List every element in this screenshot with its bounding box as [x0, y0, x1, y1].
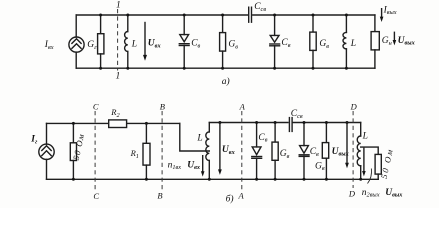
wire: right top rail right of Csv [293, 122, 361, 124]
node dot Gv2b top [325, 121, 328, 124]
node dot Cv1 bottom [183, 67, 186, 70]
svg-text:L: L [362, 131, 368, 141]
svg-text:Uвых: Uвых [398, 36, 415, 47]
svg-text:B: B [160, 101, 165, 111]
svg-text:Iг: Iг [30, 135, 38, 146]
svg-text:Gв: Gв [319, 39, 329, 50]
load conductance Gn [371, 15, 379, 68]
svg-text:а): а) [222, 76, 230, 87]
svg-text:Gв: Gв [280, 149, 290, 160]
svg-text:R1: R1 [130, 148, 139, 160]
node dot L input bottom [208, 178, 211, 181]
wire: right top rail left of Csv [209, 122, 288, 124]
svg-text:Uвх: Uвх [148, 39, 161, 50]
section line A-A [241, 111, 243, 191]
conductance Gv1 [220, 15, 226, 68]
node dot Gv1 bottom [221, 67, 224, 70]
svg-text:Cв: Cв [258, 133, 267, 144]
svg-text:Gн: Gн [382, 36, 392, 47]
svg-text:Uвых: Uвых [385, 188, 402, 199]
wire: top rail left of Csv [76, 14, 247, 16]
arrow Uvx [143, 23, 147, 61]
node dot L2 bottom [345, 67, 348, 70]
varicap Cv2 b [299, 123, 309, 180]
node dot Uvx arrow top [218, 121, 221, 124]
arrow Uvx long [218, 123, 222, 175]
resistor R1 [143, 123, 150, 179]
varicap Cv1 b [252, 123, 262, 180]
node dot Cv2 bottom [273, 67, 276, 70]
wire: left edge lower [75, 52, 77, 68]
wire: bottom rail [47, 178, 379, 180]
node dot Cv2 top [273, 14, 276, 17]
svg-text:1: 1 [116, 1, 121, 11]
svg-text:R2: R2 [110, 107, 120, 119]
svg-text:L: L [131, 40, 137, 50]
resistor R2 [109, 120, 127, 128]
svg-text:Gв: Gв [228, 39, 238, 50]
section line C-C [94, 111, 96, 191]
wire: left edge upper [46, 123, 48, 144]
conductance Gv2 [310, 15, 316, 68]
wire: bottom rail [76, 67, 375, 69]
section line D-D [352, 111, 354, 188]
node dot Cv2b top [303, 121, 306, 124]
node dot Gg top [99, 14, 102, 17]
svg-text:C: C [93, 101, 99, 111]
node dot R1 top [145, 122, 148, 125]
svg-text:Iвых: Iвых [383, 5, 397, 16]
node dot Gg bottom [99, 67, 102, 70]
svg-text:Cв: Cв [191, 38, 200, 49]
node dot Uvyx arrow top [346, 121, 349, 124]
svg-text:L: L [350, 39, 356, 49]
node dot L1 top [126, 14, 129, 17]
wire: step down to coil tap [180, 123, 210, 151]
conductance Gv1 b [272, 123, 278, 180]
svg-text:Gв: Gв [315, 161, 325, 172]
resistor 50 Ohm load [375, 154, 381, 179]
svg-text:Cв: Cв [310, 147, 319, 158]
inductor L output [357, 123, 360, 180]
svg-text:L: L [196, 134, 202, 144]
svg-text:Iвх: Iвх [44, 40, 54, 51]
svg-text:1: 1 [116, 72, 121, 82]
arrow Uvyx long [345, 123, 349, 169]
wire: output tap [361, 147, 379, 154]
svg-text:n1вх: n1вх [168, 160, 182, 171]
wire: top rail left segment [47, 122, 109, 124]
node dot Cv1 top [183, 14, 186, 17]
svg-text:Uвх: Uвх [222, 145, 235, 156]
wire: left edge lower [46, 159, 48, 179]
node dot Gv2 bottom [312, 67, 315, 70]
node dot 50ohm bottom [72, 178, 75, 181]
arrow Uvyx small [393, 32, 397, 45]
svg-text:C: C [93, 191, 99, 201]
leader line n2vyx [368, 169, 372, 184]
svg-text:A: A [238, 190, 245, 200]
node dot Cv1b bottom [255, 178, 258, 181]
svg-text:50 Ом: 50 Ом [379, 147, 395, 180]
svg-text:Cсв: Cсв [254, 2, 266, 13]
node dot R1 bottom [145, 178, 148, 181]
node dot Cv1b top [255, 121, 258, 124]
inductor L input [206, 123, 209, 180]
coupling capacitor Csv b [289, 118, 292, 132]
current source Ivx [69, 37, 84, 52]
node dot L2 top [345, 14, 348, 17]
node dot Gv1b top [274, 121, 277, 124]
node dot Gv1b bottom [274, 178, 277, 181]
svg-text:Gг: Gг [87, 40, 97, 51]
wire: top rail mid segment [127, 122, 180, 124]
node dot Cv2b bottom [303, 178, 306, 181]
arrow n2vyx [362, 148, 366, 176]
svg-text:D: D [348, 188, 356, 198]
arrow n1vx Uvx [201, 156, 205, 177]
node dot L output bottom [359, 178, 362, 181]
svg-text:Cв: Cв [281, 38, 290, 49]
section line 1-1 [117, 9, 119, 71]
svg-text:n2вых: n2вых [362, 188, 380, 199]
svg-text:б): б) [226, 194, 234, 205]
node dot Gv1 top [221, 14, 224, 17]
node dot 50ohm top [72, 122, 75, 125]
inductor L1 [125, 15, 128, 68]
svg-text:Uвых: Uвых [332, 147, 349, 158]
current source Ig [39, 144, 54, 159]
svg-text:D: D [350, 101, 358, 111]
svg-text:A: A [239, 101, 246, 111]
varicap Cv1 [179, 15, 189, 68]
arrow Ivyx [380, 9, 384, 22]
svg-text:B: B [157, 190, 162, 200]
node dot L1 bottom [126, 67, 129, 70]
inductor L2 [343, 15, 346, 68]
resistor 50 Ohm source [70, 123, 76, 179]
node dot Gv2b bottom [325, 178, 328, 181]
coupling capacitor Csv [249, 7, 252, 22]
svg-text:Cсв: Cсв [291, 109, 303, 120]
section line B-B [161, 111, 163, 191]
conductance Gg [98, 15, 104, 68]
varicap Cv2 [270, 15, 280, 68]
node dot Gv2 top [312, 14, 315, 17]
conductance Gv2 b [322, 123, 328, 180]
wire: top rail right of Csv [253, 14, 375, 16]
svg-text:Uвх: Uвх [187, 160, 200, 171]
wire: left edge upper [75, 15, 77, 37]
